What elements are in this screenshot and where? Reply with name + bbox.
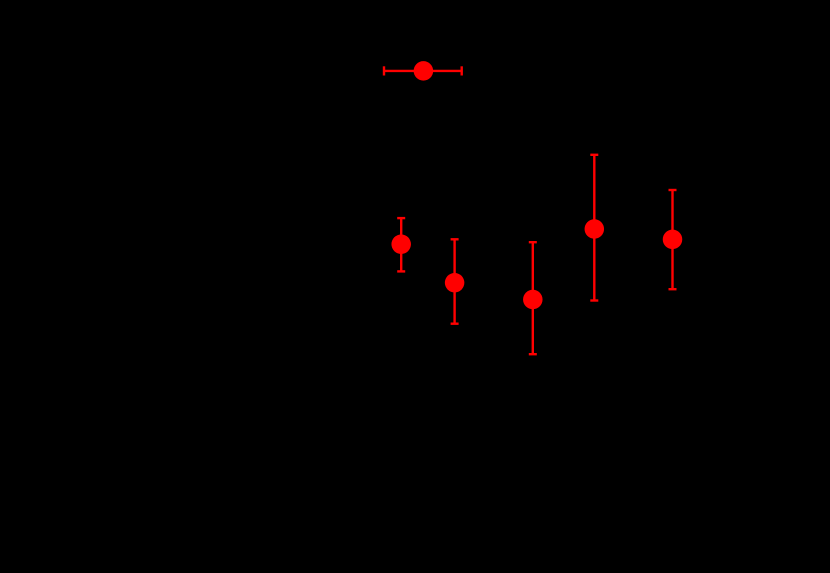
data point P5 with vertical error bar: [590, 155, 598, 301]
bottom cap P3: [451, 323, 459, 325]
wire: vertical error bar line P5: [593, 155, 595, 301]
top cap P3: [451, 238, 459, 240]
bottom cap P5: [590, 299, 598, 301]
marker P1: [414, 61, 434, 81]
bottom cap P6: [669, 288, 677, 290]
marker P3: [445, 273, 465, 293]
top cap P2: [397, 217, 405, 219]
wire: vertical error bar line P2: [400, 218, 402, 271]
bottom cap P4: [529, 353, 537, 355]
marker P2: [391, 234, 411, 254]
wire: vertical error bar line P6: [671, 190, 673, 289]
wire: vertical error bar line P3: [453, 239, 455, 323]
wire: horizontal error bar line P1: [384, 70, 462, 72]
top cap P5: [590, 154, 598, 156]
data point P6 with vertical error bar: [669, 190, 677, 289]
left cap P1: [383, 66, 385, 75]
bottom cap P2: [397, 270, 405, 272]
top cap P4: [529, 241, 537, 243]
marker P5: [585, 219, 605, 239]
right cap P1: [461, 66, 463, 75]
top cap P6: [669, 189, 677, 191]
data point P1 with horizontal error bar: [384, 66, 462, 75]
data point P4 with vertical error bar: [529, 242, 537, 354]
data point P2 with vertical error bar: [397, 218, 405, 271]
marker P6: [663, 230, 683, 250]
wire: vertical error bar line P4: [532, 242, 534, 354]
marker P4: [523, 290, 543, 310]
data point P3 with vertical error bar: [451, 239, 459, 323]
